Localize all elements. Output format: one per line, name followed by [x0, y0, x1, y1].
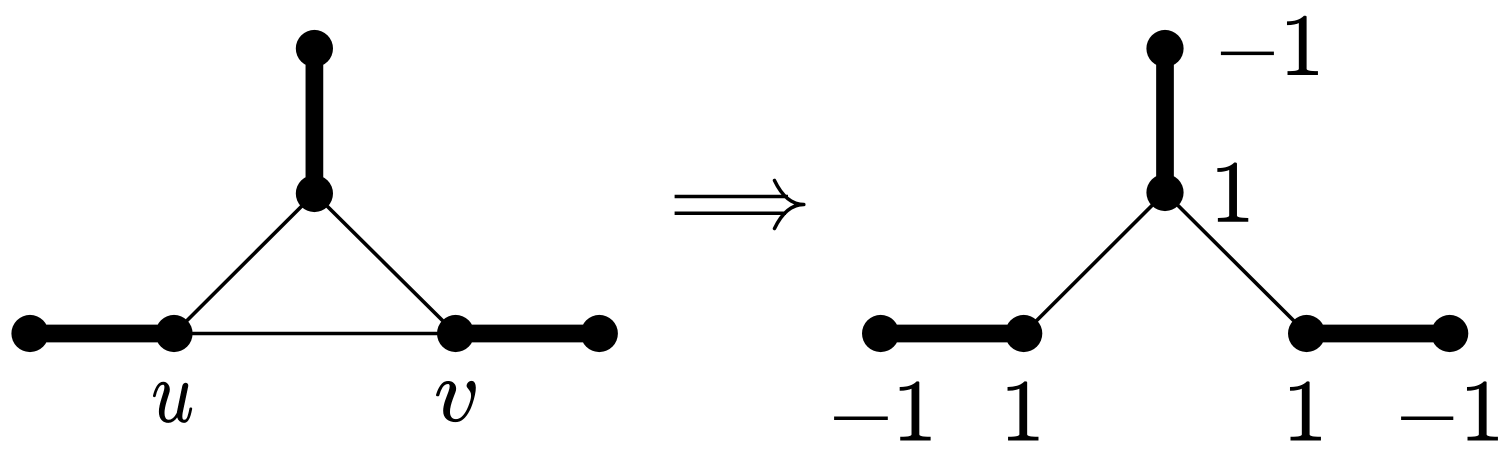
node center vertex (weight 1)	[1146, 174, 1183, 211]
node bottom-right outer vertex (weight -1)	[1431, 315, 1468, 352]
label 1 bottom right	[1290, 382, 1320, 441]
wire thin triangle edge u-v	[174, 332, 456, 336]
wire thick pendant edge top (top vertex to apex)	[306, 49, 324, 194]
wire thick pendant edge right (v to rightmost vertex)	[456, 325, 600, 343]
wire thick bottom-right edge	[1307, 325, 1450, 343]
node bottom-left outer vertex (weight -1)	[862, 315, 899, 352]
wire thick bottom-left edge	[881, 325, 1024, 343]
wire thick top edge	[1156, 49, 1174, 193]
wire thin triangle edge apex-v	[314, 194, 455, 334]
node rightmost pendant vertex	[581, 315, 618, 352]
label 1 bottom left	[1008, 382, 1038, 441]
wire thin edge center to bottom-right	[1165, 193, 1307, 334]
node leftmost pendant vertex	[11, 315, 48, 352]
node v	[437, 315, 474, 352]
node top pendant vertex	[296, 30, 333, 67]
label 1 center	[1218, 163, 1248, 222]
wire thick pendant edge left (leftmost vertex to u)	[30, 325, 174, 343]
label -1 bottom far right (minus)	[1401, 417, 1453, 421]
label u	[153, 382, 192, 422]
wire thin triangle edge u-apex	[174, 194, 314, 334]
node triangle apex	[296, 175, 333, 212]
label v	[436, 381, 475, 422]
label -1 top (digit 1)	[1287, 16, 1317, 75]
node bottom-right inner vertex (weight 1)	[1288, 315, 1325, 352]
node bottom-left inner vertex (weight 1)	[1005, 315, 1042, 352]
node top vertex (weight -1)	[1146, 30, 1183, 67]
implies arrow	[675, 181, 804, 229]
label -1 bottom far left (minus)	[834, 417, 888, 421]
label -1 top (minus)	[1221, 52, 1274, 56]
node u	[155, 315, 192, 352]
wire thin edge center to bottom-left	[1024, 193, 1165, 334]
label -1 bottom far right (digit 1)	[1467, 382, 1497, 441]
label -1 bottom far left (digit 1)	[900, 382, 930, 441]
